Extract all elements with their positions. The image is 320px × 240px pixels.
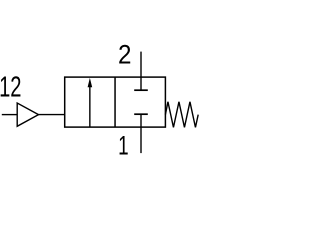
blocked port T top: crossbar	[134, 89, 148, 91]
wire pilot-to-valve	[39, 114, 65, 116]
blocked port T bottom: stem	[140, 114, 142, 127]
pilot actuator triangle	[17, 103, 38, 126]
flow arrow head	[88, 78, 93, 87]
port 1 stub	[140, 127, 142, 153]
blocked port T top: stem	[140, 77, 142, 90]
chamber divider	[114, 77, 116, 127]
port 2 stub	[140, 52, 142, 78]
svg-text:12: 12	[0, 72, 21, 103]
svg-text:2: 2	[118, 41, 131, 71]
return spring	[165, 102, 198, 128]
svg-text:1: 1	[118, 130, 129, 160]
flow arrow shaft	[89, 87, 91, 128]
wire pilot-in	[2, 114, 17, 116]
blocked port T bottom: crossbar	[134, 113, 148, 115]
valve body	[65, 77, 166, 127]
